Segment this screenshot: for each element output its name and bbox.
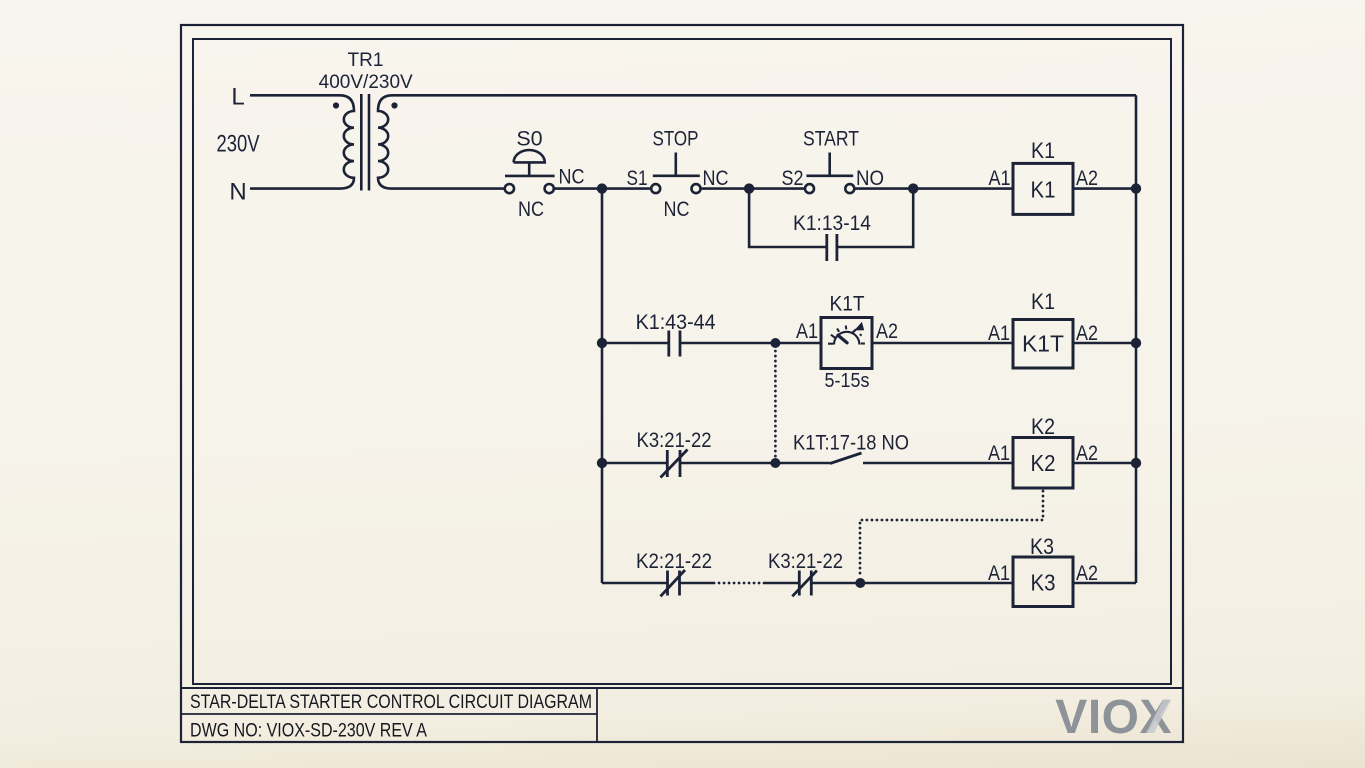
wire row2 contact to timer — [680, 342, 822, 345]
wire top rail — [392, 94, 1136, 97]
svg-text:S0: S0 — [516, 127, 542, 151]
svg-text:START: START — [803, 127, 859, 151]
node left bus row2 — [597, 338, 607, 348]
svg-text:DWG NO: VIOX-SD-230V REV A: DWG NO: VIOX-SD-230V REV A — [190, 721, 427, 742]
svg-text:A2: A2 — [1076, 562, 1098, 585]
wire row3 contact to timed contact — [680, 462, 830, 465]
svg-text:K2: K2 — [1031, 450, 1056, 476]
contact K3:21-22 (NC) — [661, 450, 688, 478]
wire row4 solid segment 2 — [765, 582, 799, 585]
wire S0 to left bus — [554, 187, 602, 190]
node left bus row1 — [597, 183, 607, 193]
svg-text:A1: A1 — [989, 167, 1011, 190]
svg-text:A2: A2 — [1076, 167, 1098, 190]
svg-text:K1:13-14: K1:13-14 — [793, 212, 871, 235]
svg-text:400V/230V: 400V/230V — [319, 72, 413, 93]
node row4 dotted tap — [855, 578, 865, 588]
dotted link K2 coil to row4 — [860, 491, 1043, 578]
inner drawing border frame — [193, 39, 1171, 684]
svg-text:K1: K1 — [1031, 177, 1056, 203]
svg-text:TR1: TR1 — [348, 50, 384, 71]
coil K3 — [1013, 557, 1073, 607]
wire K1T coil to right bus — [1073, 342, 1136, 345]
svg-text:K2:21-22: K2:21-22 — [636, 550, 712, 573]
outer drawing border frame — [181, 25, 1183, 742]
svg-text:K1T: K1T — [1022, 331, 1064, 357]
wire row4 solid segment — [680, 582, 714, 585]
pushbutton S1 STOP (NC) — [651, 153, 700, 194]
timer K1T — [821, 318, 872, 369]
wire branch around START — [749, 189, 913, 247]
wire L input — [250, 94, 340, 97]
svg-text:STOP: STOP — [653, 127, 699, 151]
contact K1:13-14 (NO) — [827, 234, 837, 261]
VIOX logo — [1055, 691, 1172, 744]
svg-text:K3: K3 — [1030, 534, 1054, 559]
svg-text:A2: A2 — [1076, 322, 1098, 345]
svg-text:A2: A2 — [1076, 442, 1098, 465]
svg-text:K1: K1 — [1031, 138, 1055, 163]
node right bus row3 — [1131, 458, 1141, 468]
wire bus to S1 — [602, 187, 651, 190]
pushbutton S0 (emergency stop, NC) — [505, 150, 555, 193]
svg-text:NC: NC — [559, 166, 585, 189]
node row2 dotted tap — [770, 338, 780, 348]
svg-text:NC: NC — [703, 166, 729, 190]
node left bus row3 — [597, 458, 607, 468]
contact K2:21-22 (NC) — [661, 570, 686, 596]
coil K1T — [1013, 320, 1073, 369]
contact K1T:17-18 (NO timed) — [830, 453, 862, 464]
transformer TR1 — [333, 94, 398, 191]
svg-text:NO: NO — [856, 166, 884, 190]
wire K2 to right bus — [1073, 462, 1136, 465]
wire node to S2 — [749, 187, 805, 190]
svg-text:K3:21-22: K3:21-22 — [637, 429, 712, 452]
svg-text:A1: A1 — [796, 320, 818, 343]
wire row4 to K3 coil — [811, 582, 1013, 585]
svg-text:N: N — [229, 179, 246, 206]
dotted link row2 to row3 — [774, 351, 777, 457]
coil K1 — [1013, 163, 1073, 214]
wire row2 bus to contact — [602, 342, 669, 345]
svg-text:K3: K3 — [1031, 570, 1056, 596]
contact K1:43-44 (NO) — [669, 331, 680, 357]
node branch left — [744, 183, 754, 193]
svg-text:5-15s: 5-15s — [825, 370, 870, 392]
wire secondary to S0 — [392, 187, 505, 190]
svg-text:S1: S1 — [627, 166, 648, 190]
svg-text:A1: A1 — [988, 322, 1010, 345]
wire timed contact to K2 coil — [863, 462, 1013, 465]
wire S1 to node — [701, 187, 750, 190]
svg-text:K3:21-22: K3:21-22 — [768, 550, 843, 573]
wire S2 to node — [854, 187, 913, 190]
wire row3 bus to contact — [602, 462, 667, 465]
wire timer to K1T coil — [872, 342, 1013, 345]
svg-text:S2: S2 — [782, 166, 804, 190]
svg-text:A2: A2 — [876, 320, 898, 343]
wire row4 bus corner to contact — [602, 582, 668, 585]
node branch right — [908, 183, 918, 193]
wire K1 to right bus — [1073, 187, 1136, 190]
wire K3 to right bus — [1073, 582, 1136, 585]
node row3 dotted tap — [770, 458, 780, 468]
svg-text:230V: 230V — [217, 131, 260, 158]
dotted wire row4 — [714, 582, 765, 585]
svg-text:K1T:17-18 NO: K1T:17-18 NO — [793, 432, 909, 455]
wire N input — [250, 187, 340, 190]
left bus vertical — [601, 189, 604, 583]
svg-text:K1: K1 — [1031, 289, 1055, 314]
svg-text:K1T: K1T — [830, 293, 865, 316]
svg-text:STAR-DELTA STARTER CONTROL CIR: STAR-DELTA STARTER CONTROL CIRCUIT DIAGR… — [190, 692, 592, 713]
contact K3:21-22 (NC, row4) — [792, 571, 817, 597]
svg-text:K2: K2 — [1031, 414, 1055, 439]
svg-text:NC: NC — [518, 198, 544, 221]
svg-text:A1: A1 — [988, 442, 1010, 465]
right bus vertical — [1135, 95, 1138, 583]
svg-text:NC: NC — [664, 198, 690, 221]
pushbutton S2 START (NO) — [805, 153, 854, 194]
coil K2 — [1013, 438, 1073, 489]
node right bus row1 — [1131, 183, 1141, 193]
svg-text:L: L — [231, 84, 244, 111]
title block — [181, 688, 1183, 742]
svg-text:A1: A1 — [988, 562, 1010, 585]
wire node to K1 coil — [913, 187, 1013, 190]
node right bus row2 — [1131, 338, 1141, 348]
svg-text:K1:43-44: K1:43-44 — [636, 311, 716, 334]
